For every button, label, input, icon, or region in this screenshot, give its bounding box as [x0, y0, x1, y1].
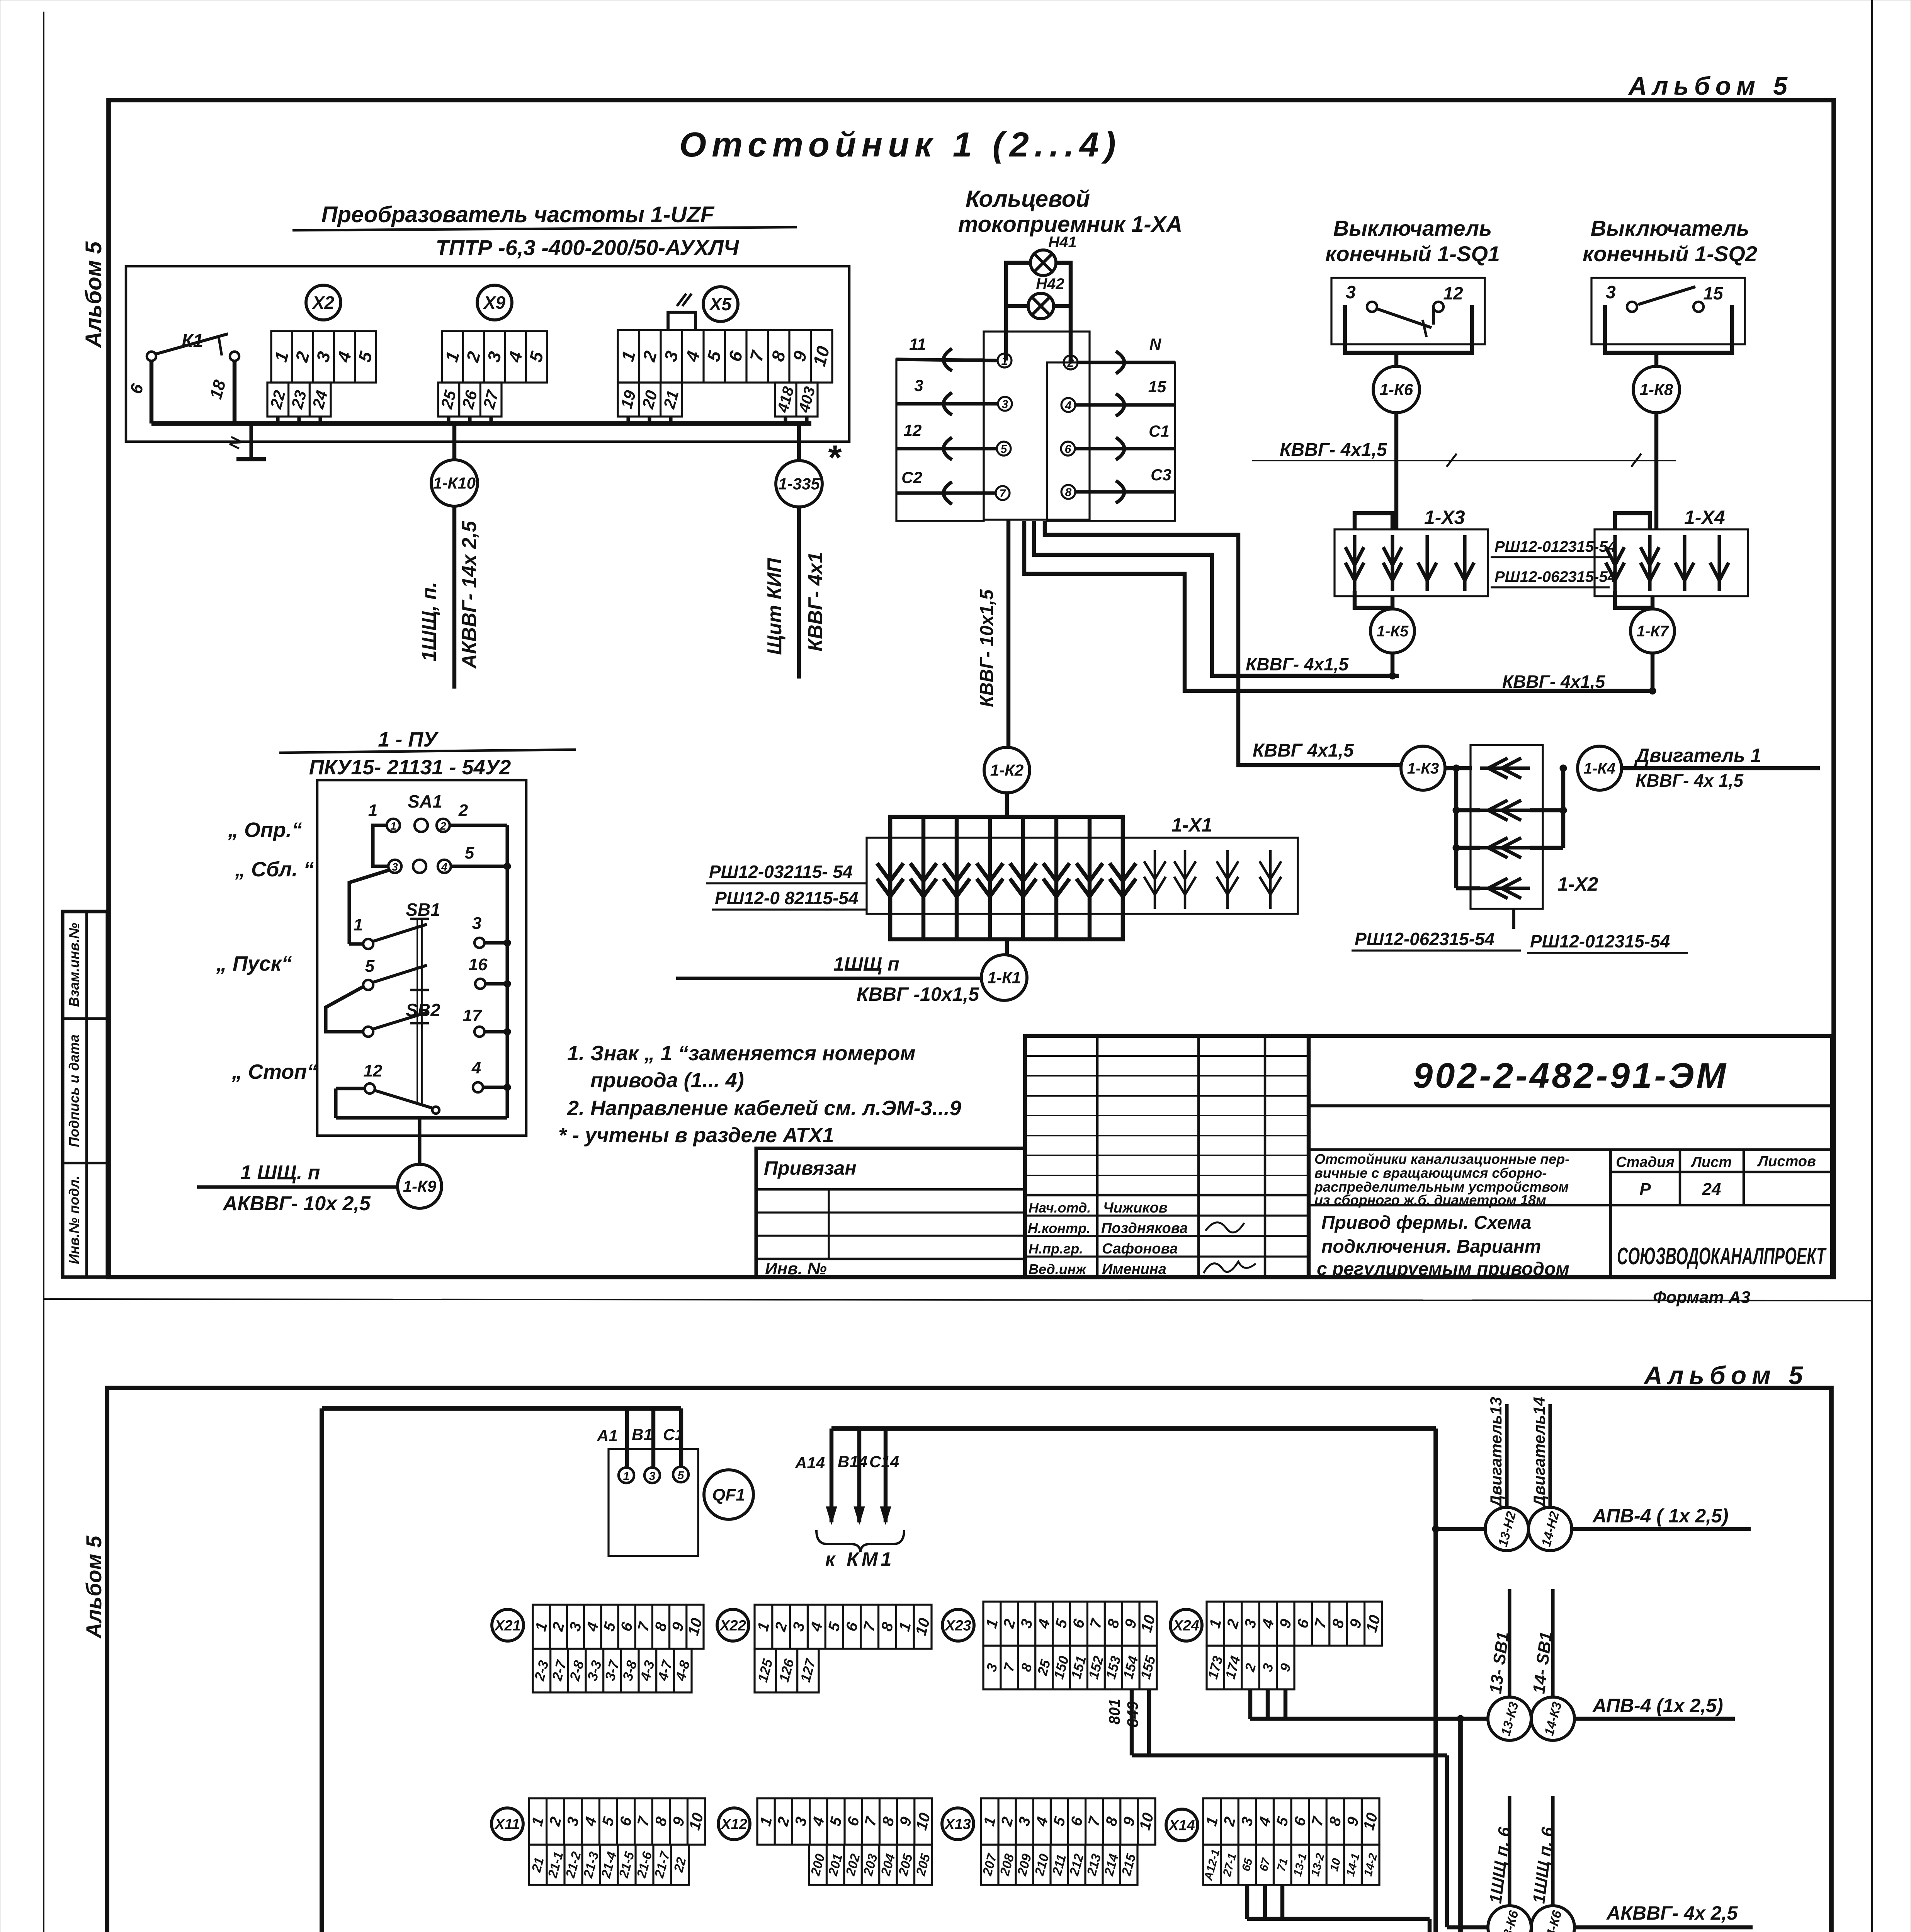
svg-text:11: 11: [909, 335, 926, 353]
cable run line KVVG-4x1.5: [1252, 460, 1676, 461]
stub to 13-K6: [1447, 1925, 1488, 1929]
svg-text:Х23: Х23: [944, 1617, 971, 1634]
terminal block X22 tags: [755, 1649, 819, 1692]
SQ2 wire loop: [1605, 305, 1732, 353]
SQ1 wire loop: [1345, 305, 1472, 353]
cable marker 1-K10: [431, 460, 478, 506]
cable collector to 1-K2: [1007, 520, 1010, 747]
terminal block X9 tag cells 25 26 27: [438, 383, 502, 417]
svg-text:Х14: Х14: [1168, 1817, 1195, 1833]
terminal block X5 tag cells 418 403: [775, 383, 818, 417]
collector terminal 6: [1061, 442, 1075, 456]
svg-text:РШ12-062315-54: РШ12-062315-54: [1355, 929, 1494, 949]
svg-text:В1: В1: [632, 1425, 653, 1444]
lamp wiring left: [1006, 263, 1030, 361]
SB1 pushbutton stem: [410, 918, 429, 920]
svg-text:SА1: SА1: [408, 791, 442, 811]
svg-text:1: 1: [354, 915, 363, 934]
svg-text:1-К1: 1-К1: [988, 969, 1021, 987]
svg-text:АПВ-4 (1х 2,5): АПВ-4 (1х 2,5): [1592, 1695, 1723, 1716]
wire 1-X1 to 1-K1: [1005, 939, 1009, 955]
svg-text:12: 12: [364, 1061, 383, 1080]
svg-text:4: 4: [1065, 399, 1072, 412]
terminal block X23: [983, 1602, 1157, 1646]
svg-text:Вед.инж: Вед.инж: [1029, 1261, 1087, 1277]
svg-text:801: 801: [1106, 1699, 1123, 1725]
svg-text:А14: А14: [795, 1454, 825, 1472]
svg-text:С1: С1: [1149, 422, 1170, 440]
terminal block X2 tag cells 22 23 24: [267, 383, 331, 417]
svg-text:2: 2: [458, 801, 468, 820]
wire APV right row H2: [1572, 1527, 1751, 1531]
svg-text:КВВГ- 4х1,5: КВВГ- 4х1,5: [1502, 672, 1606, 692]
svg-text:1 ШЩ. п: 1 ШЩ. п: [240, 1162, 320, 1184]
frequency converter box 1-UZF: [126, 266, 849, 442]
svg-text:12: 12: [904, 421, 922, 439]
SA1 contacts row1: [387, 819, 400, 832]
wire 1-K8 down to 1-X4: [1654, 413, 1658, 529]
collector row wire C3: [1075, 490, 1175, 493]
svg-text:ТПТР -6,3 -400-200/50-АУХЛЧ: ТПТР -6,3 -400-200/50-АУХЛЧ: [436, 235, 740, 260]
1-X3 bottom loop: [1355, 591, 1392, 608]
PU right bus: [505, 825, 509, 1118]
svg-text:конечный 1-SQ1: конечный 1-SQ1: [1325, 241, 1500, 266]
svg-text:Н42: Н42: [1036, 276, 1064, 293]
svg-text:Альбом 5: Альбом 5: [82, 1536, 106, 1639]
svg-text:1-К3: 1-К3: [1407, 760, 1439, 777]
svg-text:Именина: Именина: [1102, 1261, 1166, 1277]
svg-text:Кольцевой: Кольцевой: [966, 186, 1090, 212]
svg-text:Привод фермы. Схема: Привод фермы. Схема: [1321, 1213, 1531, 1233]
wires X5 tags 19-21 to bus: [626, 417, 630, 423]
bus X14 tags to K5 feed: [1247, 1917, 1430, 1921]
svg-text:1-Х3: 1-Х3: [1424, 507, 1465, 528]
terminal block X12 tags: [809, 1845, 932, 1885]
sheet 1 left stamp column: [63, 912, 107, 1277]
SQ2 contacts: [1627, 302, 1637, 312]
svg-text:Выключатель: Выключатель: [1591, 216, 1749, 240]
terminal block X9: [442, 331, 547, 383]
1-X2 pin arrow row2: [1480, 808, 1530, 812]
stop contact row D: [365, 1083, 375, 1094]
svg-text:КВВГ 4х1,5: КВВГ 4х1,5: [1253, 740, 1354, 761]
svg-text:QF1: QF1: [712, 1485, 745, 1504]
signature squiggles sheet1: [1205, 1223, 1244, 1233]
svg-text:5: 5: [365, 957, 375, 976]
title block sheet1 outline: [1025, 1036, 1832, 1277]
svg-text:Р: Р: [1639, 1180, 1651, 1199]
cable marker 1-K5: [1370, 609, 1415, 653]
svg-text:Х24: Х24: [1172, 1617, 1199, 1634]
QF1 drop A1: [625, 1408, 629, 1468]
cable marker 1-K6: [1373, 366, 1420, 413]
svg-text:Двигатель14: Двигатель14: [1530, 1397, 1548, 1508]
cable 1-K10 down: [452, 506, 456, 689]
stub to 13-H2: [1436, 1527, 1485, 1531]
wire SA1 1 to 3: [373, 825, 388, 866]
svg-text:РШ12-062315-54: РШ12-062315-54: [1494, 568, 1616, 585]
wire K1 right to bus: [233, 361, 236, 423]
cable marker 1-K8: [1633, 366, 1680, 413]
1-X3 pin arrow 1: [1353, 535, 1356, 591]
svg-text:Выключатель: Выключатель: [1333, 216, 1492, 240]
terminal block X13: [981, 1798, 1155, 1845]
svg-text:Х22: Х22: [719, 1617, 746, 1634]
collector terminal 2: [1064, 355, 1078, 369]
svg-text:Инв.№ подл.: Инв.№ подл.: [66, 1175, 82, 1264]
1-X4 pin arrow 1: [1613, 535, 1617, 591]
QF1 terminal 1: [619, 1468, 634, 1483]
svg-text:КВВГ- 4х1,5: КВВГ- 4х1,5: [1246, 654, 1349, 674]
terminal block X24 tags: [1207, 1646, 1294, 1689]
cable marker 13-H2: [1485, 1507, 1528, 1551]
svg-text:Н41: Н41: [1048, 234, 1076, 251]
jumper atop 1-X3 pins 1-2: [1355, 513, 1392, 529]
junction dot bus2 K7: [1649, 687, 1656, 694]
svg-text:С1: С1: [663, 1425, 684, 1444]
svg-text:1: 1: [368, 801, 377, 820]
terminal block X21 label circle: [492, 1609, 524, 1641]
wires X2 tags to bus: [276, 417, 279, 423]
svg-text:1: 1: [1001, 355, 1008, 367]
cable marker 1-K3: [1401, 746, 1445, 790]
svg-text:Привязан: Привязан: [764, 1157, 857, 1179]
terminal block X5: [618, 330, 832, 383]
svg-text:С2: С2: [901, 468, 922, 486]
1-X2 left link wire: [1454, 768, 1458, 888]
collector row wire 11: [896, 359, 998, 361]
wires X9 tags to bus: [447, 417, 450, 423]
svg-text:1-К8: 1-К8: [1640, 381, 1673, 399]
wire 1-K3 to motor connector: [1445, 766, 1472, 770]
1-X2 pin arrow row3: [1480, 846, 1530, 849]
collector row wire 3: [896, 402, 998, 405]
svg-text:Н.контр.: Н.контр.: [1028, 1220, 1090, 1236]
collector wire to bus1: [1034, 521, 1399, 676]
cable marker 1-K1: [981, 955, 1027, 1000]
QF1 drop B1: [651, 1408, 655, 1468]
svg-text:В14: В14: [838, 1452, 867, 1471]
svg-text:Преобразователь частоты 1-UZF: Преобразователь частоты 1-UZF: [321, 202, 715, 227]
connector 1-X3 box: [1335, 529, 1488, 596]
svg-text:4: 4: [441, 861, 447, 873]
terminal block X13 tags: [981, 1845, 1137, 1885]
svg-text:*: *: [827, 439, 842, 477]
terminal block X2 label circle: [306, 285, 341, 320]
QF1 drop C1: [679, 1408, 683, 1468]
svg-text:1-К10: 1-К10: [433, 474, 476, 492]
1-X4 bottom loop: [1615, 591, 1653, 608]
connector 1-X4 box: [1595, 529, 1748, 596]
cable 1-335 down: [797, 507, 801, 679]
terminal block X14 tags: [1203, 1845, 1379, 1885]
limit switch SQ2 box: [1591, 278, 1745, 344]
svg-text:Щит КИП: Щит КИП: [763, 558, 786, 655]
collector body outline: [984, 332, 1090, 520]
svg-text:Х12: Х12: [720, 1816, 747, 1832]
terminal block X11 tags: [529, 1845, 689, 1885]
svg-text:Позднякова: Позднякова: [1101, 1220, 1188, 1236]
svg-text:Альбом 5: Альбом 5: [1628, 71, 1793, 100]
svg-text:1 - ПУ: 1 - ПУ: [378, 728, 439, 751]
cable marker 13-K6: [1488, 1906, 1531, 1932]
wire AKVVG right row K6: [1574, 1925, 1753, 1929]
terminal block X24 label circle: [1170, 1609, 1202, 1641]
collector wire to bus2: [1024, 521, 1656, 691]
cable marker 1-K9: [398, 1164, 442, 1208]
terminal block X23 tags: [983, 1646, 1157, 1689]
paper edge left: [43, 12, 44, 1932]
cable marker 14-K6: [1531, 1906, 1574, 1932]
wires Dvigatel13 14 up: [1505, 1404, 1508, 1507]
svg-text:1-Х1: 1-Х1: [1171, 814, 1212, 836]
KM1 drop C14: [884, 1429, 887, 1522]
wire row D left down: [334, 1088, 337, 1118]
svg-text:АКВВГ- 10х 2,5: АКВВГ- 10х 2,5: [222, 1192, 371, 1215]
svg-text:Отстойники канализационные пер: Отстойники канализационные пер-: [1314, 1151, 1569, 1167]
collector wire to K3 row: [1045, 521, 1401, 765]
svg-text:С14: С14: [869, 1452, 899, 1471]
terminal block X12: [757, 1798, 932, 1845]
1-X1 thin pin arrows: [1154, 850, 1156, 909]
svg-text:КВВГ- 4х1: КВВГ- 4х1: [804, 552, 827, 651]
svg-text:КВВГ- 10х1,5: КВВГ- 10х1,5: [977, 589, 997, 707]
svg-text:1-Х4: 1-Х4: [1684, 507, 1725, 528]
svg-text:1-К4: 1-К4: [1584, 760, 1615, 777]
wires X14 tags down: [1245, 1885, 1249, 1919]
SQ1 contacts: [1367, 302, 1377, 312]
right bus from KM1 down: [1433, 1429, 1438, 1932]
wire 1-X3 to 1-K5: [1391, 596, 1394, 609]
wire 1-X4 to 1-K7: [1651, 596, 1654, 609]
svg-text:6: 6: [1065, 443, 1071, 456]
collector row wire C1: [1075, 447, 1175, 450]
terminal block X22: [755, 1605, 932, 1649]
wires X5 tags 418 403 down: [784, 417, 787, 423]
wire PU to 1-K9: [418, 1118, 421, 1164]
1-X2 right link wire: [1561, 768, 1565, 848]
collector row wire 12: [896, 447, 997, 450]
svg-text:ПКУ15- 21131 - 54У2: ПКУ15- 21131 - 54У2: [309, 756, 511, 779]
svg-text:„ Сбл. “: „ Сбл. “: [235, 858, 314, 881]
svg-text:3: 3: [1002, 398, 1008, 411]
svg-text:Листов: Листов: [1757, 1153, 1816, 1170]
svg-text:17: 17: [463, 1006, 483, 1025]
svg-text:15: 15: [1148, 378, 1166, 396]
collector terminal 4: [1061, 398, 1075, 412]
1-X2 pin arrow row4: [1480, 886, 1530, 890]
SA1 contacts row2: [388, 860, 401, 873]
svg-text:привода (1... 4): привода (1... 4): [590, 1069, 744, 1092]
terminal block X14 label circle: [1166, 1809, 1198, 1841]
control post 1-PU box: [317, 780, 526, 1136]
terminal block X22 label circle: [717, 1609, 749, 1641]
svg-text:3: 3: [649, 1470, 656, 1483]
1-X4 pin arrow 2: [1648, 535, 1651, 591]
jumper over X5 pins 3-4: [668, 312, 695, 330]
svg-text:С3: С3: [1151, 466, 1171, 484]
left vertical bus: [320, 1408, 324, 1932]
collector row wire C2: [896, 491, 996, 495]
wires X24 tags down: [1248, 1689, 1252, 1719]
SB2 pushbutton stem: [410, 1022, 429, 1025]
svg-text:Х5: Х5: [709, 294, 732, 314]
svg-text:Нач.отд.: Нач.отд.: [1029, 1200, 1091, 1216]
svg-text:3: 3: [1606, 282, 1616, 302]
svg-text:Инв. №: Инв. №: [765, 1259, 827, 1278]
svg-text:3: 3: [392, 861, 398, 873]
cable marker 1-K2: [984, 747, 1030, 793]
svg-text:Х13: Х13: [944, 1816, 971, 1832]
svg-text:„ Стоп“: „ Стоп“: [231, 1060, 317, 1083]
junction dot H2 row: [1432, 1526, 1439, 1532]
svg-text:„ Опр.“: „ Опр.“: [228, 818, 302, 842]
wire 1ShchP to 1-K9: [197, 1185, 398, 1189]
terminal block X14: [1203, 1798, 1379, 1845]
svg-text:1-К6: 1-К6: [1380, 381, 1413, 399]
collector terminal 5: [997, 442, 1011, 456]
terminal block X21 tags: [533, 1649, 692, 1692]
wire 1-K2 to 1-X1: [1005, 793, 1009, 817]
wire 801 from X23: [1130, 1689, 1134, 1755]
svg-text:8: 8: [1065, 486, 1072, 499]
drawing name sheet1: [1309, 1204, 1610, 1207]
svg-text:1: 1: [390, 820, 396, 832]
terminal block X23 label circle: [942, 1609, 974, 1641]
svg-text:SВ1: SВ1: [406, 900, 440, 920]
stage sheet row sheet1: [1609, 1150, 1612, 1277]
svg-text:к КМ1: к КМ1: [825, 1548, 894, 1570]
KM1 drop A14: [830, 1429, 833, 1522]
svg-text:АКВВГ- 14х 2,5: АКВВГ- 14х 2,5: [458, 520, 481, 669]
svg-text:Взам.инв.№: Взам.инв.№: [66, 923, 82, 1007]
right bus 2 down: [1458, 1719, 1463, 1932]
svg-text:Н.пр.гр.: Н.пр.гр.: [1029, 1241, 1083, 1257]
svg-text:12: 12: [1443, 283, 1463, 303]
circuit breaker QF1 box: [609, 1449, 698, 1556]
junction dot bus1 K5: [1389, 672, 1396, 679]
title block sheet1 left grid: [1096, 1036, 1099, 1277]
cable marker 14-K3: [1531, 1697, 1574, 1740]
svg-text:16: 16: [469, 955, 488, 974]
QF1 terminal 3: [644, 1468, 660, 1483]
svg-text:1: 1: [623, 1470, 630, 1483]
wire 1-K4 to motor: [1622, 766, 1820, 770]
wire SQ2 to 1-K8: [1654, 353, 1658, 366]
jumper atop 1-X4 pins 1-2: [1615, 513, 1650, 529]
converter internal bus: [151, 421, 811, 426]
cable marker 1-K4: [1578, 746, 1622, 790]
svg-text:Х21: Х21: [494, 1617, 521, 1634]
svg-text:конечный 1-SQ2: конечный 1-SQ2: [1583, 241, 1757, 266]
svg-text:1. Знак „ 1 “заменяется номе: 1. Знак „ 1 “заменяется номером: [567, 1042, 915, 1065]
terminal block X11: [529, 1798, 705, 1845]
svg-text:А1: А1: [597, 1427, 618, 1445]
svg-text:Стадия: Стадия: [1616, 1154, 1674, 1170]
svg-text:РШ12-032115- 54: РШ12-032115- 54: [709, 862, 853, 882]
wire SA1 4 to bus: [451, 864, 507, 868]
svg-text:КВВГ -10х1,5: КВВГ -10х1,5: [857, 983, 979, 1005]
svg-text:902-2-482-91-ЭМ: 902-2-482-91-ЭМ: [1413, 1056, 1728, 1095]
feeder bus A1 B1 C1: [322, 1406, 681, 1411]
svg-text:токоприемник 1-ХА: токоприемник 1-ХА: [958, 212, 1183, 237]
svg-text:* - учтены в разделе АТХ1: * - учтены в разделе АТХ1: [558, 1124, 834, 1147]
sheet 2 drawing frame: [107, 1388, 1831, 1932]
svg-text:Формат А3: Формат А3: [1653, 1288, 1750, 1307]
svg-text:КВВГ- 4х1,5: КВВГ- 4х1,5: [1280, 440, 1387, 460]
svg-text:Лист: Лист: [1690, 1154, 1732, 1170]
K5 feed vertical: [1428, 1919, 1432, 1932]
terminal block X12 label circle: [718, 1808, 750, 1840]
SB2 contact row C: [363, 1027, 373, 1037]
wire K1 left to bus: [150, 361, 153, 423]
QF1 label circle: [704, 1470, 753, 1519]
terminal block X21: [533, 1605, 704, 1649]
collector left box: [896, 359, 984, 521]
svg-text:1ШЩ, п.: 1ШЩ, п.: [418, 582, 440, 662]
sheet 1 drawing frame: [109, 100, 1834, 1277]
cable marker 14-H2: [1528, 1507, 1572, 1551]
connector 1-X1 thin box: [867, 838, 1298, 914]
svg-text:1-335: 1-335: [778, 475, 820, 493]
wire 849 from X23: [1147, 1689, 1151, 1755]
bus X24 tags to K3 row: [1250, 1717, 1460, 1721]
svg-text:1-Х2: 1-Х2: [1557, 873, 1598, 895]
svg-text:Подпись и дата: Подпись и дата: [66, 1034, 82, 1147]
wire SA1 2 to bus: [450, 823, 507, 827]
svg-text:АКВВГ- 4х 2,5: АКВВГ- 4х 2,5: [1606, 1902, 1738, 1924]
motor connector 1-X2 box: [1471, 745, 1543, 909]
terminal block X9 label circle: [477, 285, 512, 320]
svg-text:„ Пуск“: „ Пуск“: [216, 952, 292, 975]
KM1 drop B14: [857, 1429, 861, 1522]
stub to 13-K3: [1460, 1717, 1488, 1721]
privyazan box sheet1: [756, 1148, 1025, 1277]
svg-text:15: 15: [1703, 283, 1724, 303]
1-X4 pin arrow 4: [1717, 535, 1721, 591]
collector terminal 8: [1061, 485, 1075, 499]
wire SQ1 to 1-K6: [1394, 353, 1398, 366]
1-X2 pin arrow row1: [1480, 766, 1530, 770]
bus X23 tags to K6 feed: [1132, 1753, 1447, 1757]
svg-text:Х2: Х2: [311, 293, 335, 313]
svg-text:Чижиков: Чижиков: [1103, 1200, 1168, 1216]
svg-text:Х11: Х11: [494, 1816, 520, 1832]
collector right box: [1047, 362, 1175, 521]
wire 1ShchP to 1-K1: [676, 976, 981, 980]
svg-text:Альбом 5: Альбом 5: [1643, 1361, 1808, 1389]
svg-text:3: 3: [1346, 282, 1356, 302]
collector terminal 3: [998, 397, 1012, 411]
svg-text:Двигатель13: Двигатель13: [1487, 1397, 1505, 1508]
cable marker 13-K3: [1488, 1697, 1531, 1740]
1-X3 pin arrow 4: [1463, 535, 1466, 591]
1-X1 thick pin arrows: [888, 817, 892, 939]
wire 1-X2 bottom stub: [1512, 909, 1515, 929]
lamp H42: [1028, 293, 1054, 319]
node N with ground: [249, 423, 253, 458]
lamp H41: [1030, 250, 1056, 276]
PU bottom bus: [336, 1116, 507, 1119]
svg-text:1-К7: 1-К7: [1637, 623, 1669, 640]
wire row B to row C: [326, 986, 364, 1032]
svg-text:5: 5: [1001, 443, 1008, 456]
svg-text:849: 849: [1124, 1701, 1141, 1727]
K6 feed vertical: [1445, 1755, 1449, 1927]
wire SA1 3 down: [349, 870, 389, 944]
collector terminal 1: [998, 354, 1012, 367]
wire bus to 1-K10: [452, 423, 456, 460]
